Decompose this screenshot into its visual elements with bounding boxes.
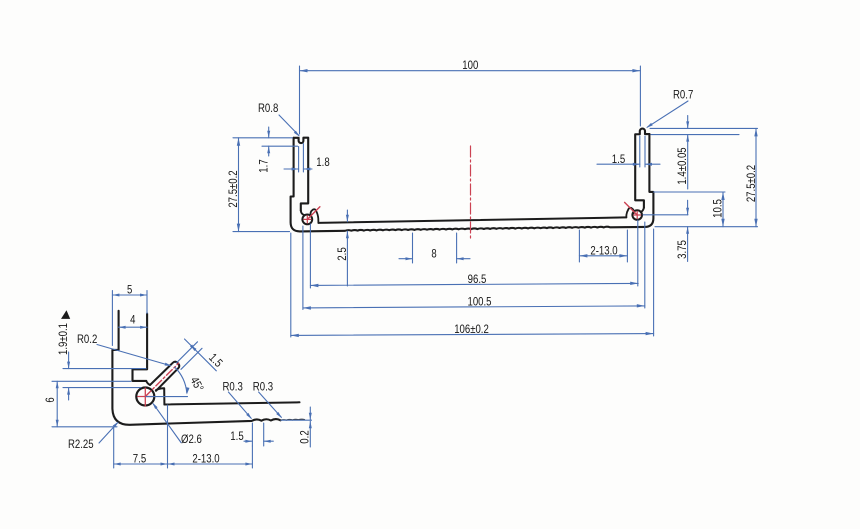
dim 100 top [299,66,301,134]
svg-text:5: 5 [127,283,133,297]
dim 5 top of detail wall [111,291,113,346]
svg-text:R0.3: R0.3 [253,380,274,394]
dim 1.7 left flange groove depth [262,145,298,147]
profile outer skirt and bottom (main view) [291,134,654,231]
dim 4 inner wall width [119,326,148,328]
dim 7.5 bottom detail [113,428,115,468]
svg-text:1.7: 1.7 [256,159,270,173]
left screw boss circle (main view) [302,215,312,225]
svg-text:2-13.0: 2-13.0 [192,451,219,465]
label phi2.6 with leader [153,404,181,443]
svg-text:R0.3: R0.3 [223,380,244,394]
main cross-section view [226,58,758,337]
svg-text:45°: 45° [187,374,206,394]
detail screw boss circle phi2.6 [136,388,154,406]
svg-text:8: 8 [431,246,437,260]
dim 2.5 plate thickness [346,210,348,222]
surface finish solid triangle [61,310,70,319]
dim 45 degrees arc [146,396,188,398]
svg-text:100.5: 100.5 [468,295,492,309]
dim 2-13.0 main view [578,230,580,262]
red cross right boss [634,214,641,216]
profile left flange with groove (main view) [294,138,309,211]
svg-text:1.5: 1.5 [206,350,226,370]
svg-text:2-13.0: 2-13.0 [590,244,617,258]
plate top inner surface (main view) [318,217,626,223]
svg-text:1.8: 1.8 [316,155,330,169]
svg-text:1.5: 1.5 [612,152,626,166]
detail claw to plate [156,388,165,404]
red 45deg screw axis right boss [625,202,638,215]
dim 1.5 right flange tongue width [639,136,641,167]
svg-text:1.5: 1.5 [230,429,244,443]
dim 106+-0.2 bottom [290,233,292,337]
detail faint serration continuation [281,419,305,420]
red cross left boss [304,218,311,220]
label R0.7 with leader [647,101,688,127]
svg-text:Ø2.6: Ø2.6 [181,432,202,446]
red 45deg screw axis left boss [307,207,320,220]
svg-text:2.5: 2.5 [335,247,349,261]
dim 1.4+-0.05 right [650,127,758,129]
svg-text:7.5: 7.5 [133,451,147,465]
svg-text:6: 6 [43,397,57,403]
label R0.2 with leader [97,345,170,366]
detail red crosshair [138,396,153,398]
connector ledge to left boss [301,211,304,215]
dim 1.5 serration pitch detail [251,423,253,446]
detail wall inner face and notch [133,314,148,381]
detail 45deg screw slot [146,362,179,391]
dim 100.5 bottom [302,226,304,310]
profile right flange with tongue bump (main view) [635,129,649,208]
svg-text:4: 4 [130,313,136,327]
detail red 45deg dash-dot axis [145,363,178,396]
label R2.25 with leader [99,423,118,444]
svg-text:10.5: 10.5 [710,199,724,218]
svg-text:96.5: 96.5 [468,272,487,286]
svg-text:1.4±0.05: 1.4±0.05 [675,147,689,185]
left screw boss claw (main view) [311,209,319,223]
label R0.8 with leader [279,115,299,136]
svg-text:R2.25: R2.25 [68,437,94,451]
red vertical centerline (main view) [470,146,472,240]
connector ledge to right boss [641,208,644,212]
enlarged corner detail view [43,283,312,469]
dim 3.75 right [643,214,688,216]
dim 8 center slot [412,233,414,263]
dim 27.5+-0.2 right [755,128,757,226]
detail outer skirt, fillet R2.25 and serrated bottom [112,311,280,425]
svg-text:27.5±0.2: 27.5±0.2 [744,165,758,203]
dim 27.5+-0.2 left [233,137,293,139]
dim 1.9+-0.1 left [63,368,146,370]
right screw boss circle (main view) [632,210,642,220]
detail plate top surface [164,402,299,404]
dim 96.5 bottom [309,224,311,288]
svg-text:0.2: 0.2 [298,430,312,444]
svg-text:R0.8: R0.8 [258,101,279,115]
svg-text:27.5±0.2: 27.5±0.2 [226,170,240,208]
svg-text:106±0.2: 106±0.2 [454,322,489,336]
svg-text:1.9±0.1: 1.9±0.1 [56,323,70,355]
dim 6 left [52,380,131,382]
svg-text:100: 100 [462,58,478,72]
dim 2-13.0 bottom detail [251,446,253,468]
dim 0.2 serration depth [281,419,312,421]
svg-text:R0.7: R0.7 [673,88,694,102]
dim 1.5 slot width (45deg) [177,342,198,363]
svg-text:3.75: 3.75 [675,240,689,259]
dim 1.8 left flange groove width [298,147,300,173]
right screw boss claw (main view) [626,208,633,218]
svg-text:R0.2: R0.2 [77,332,98,346]
dim 10.5 right [654,191,726,193]
